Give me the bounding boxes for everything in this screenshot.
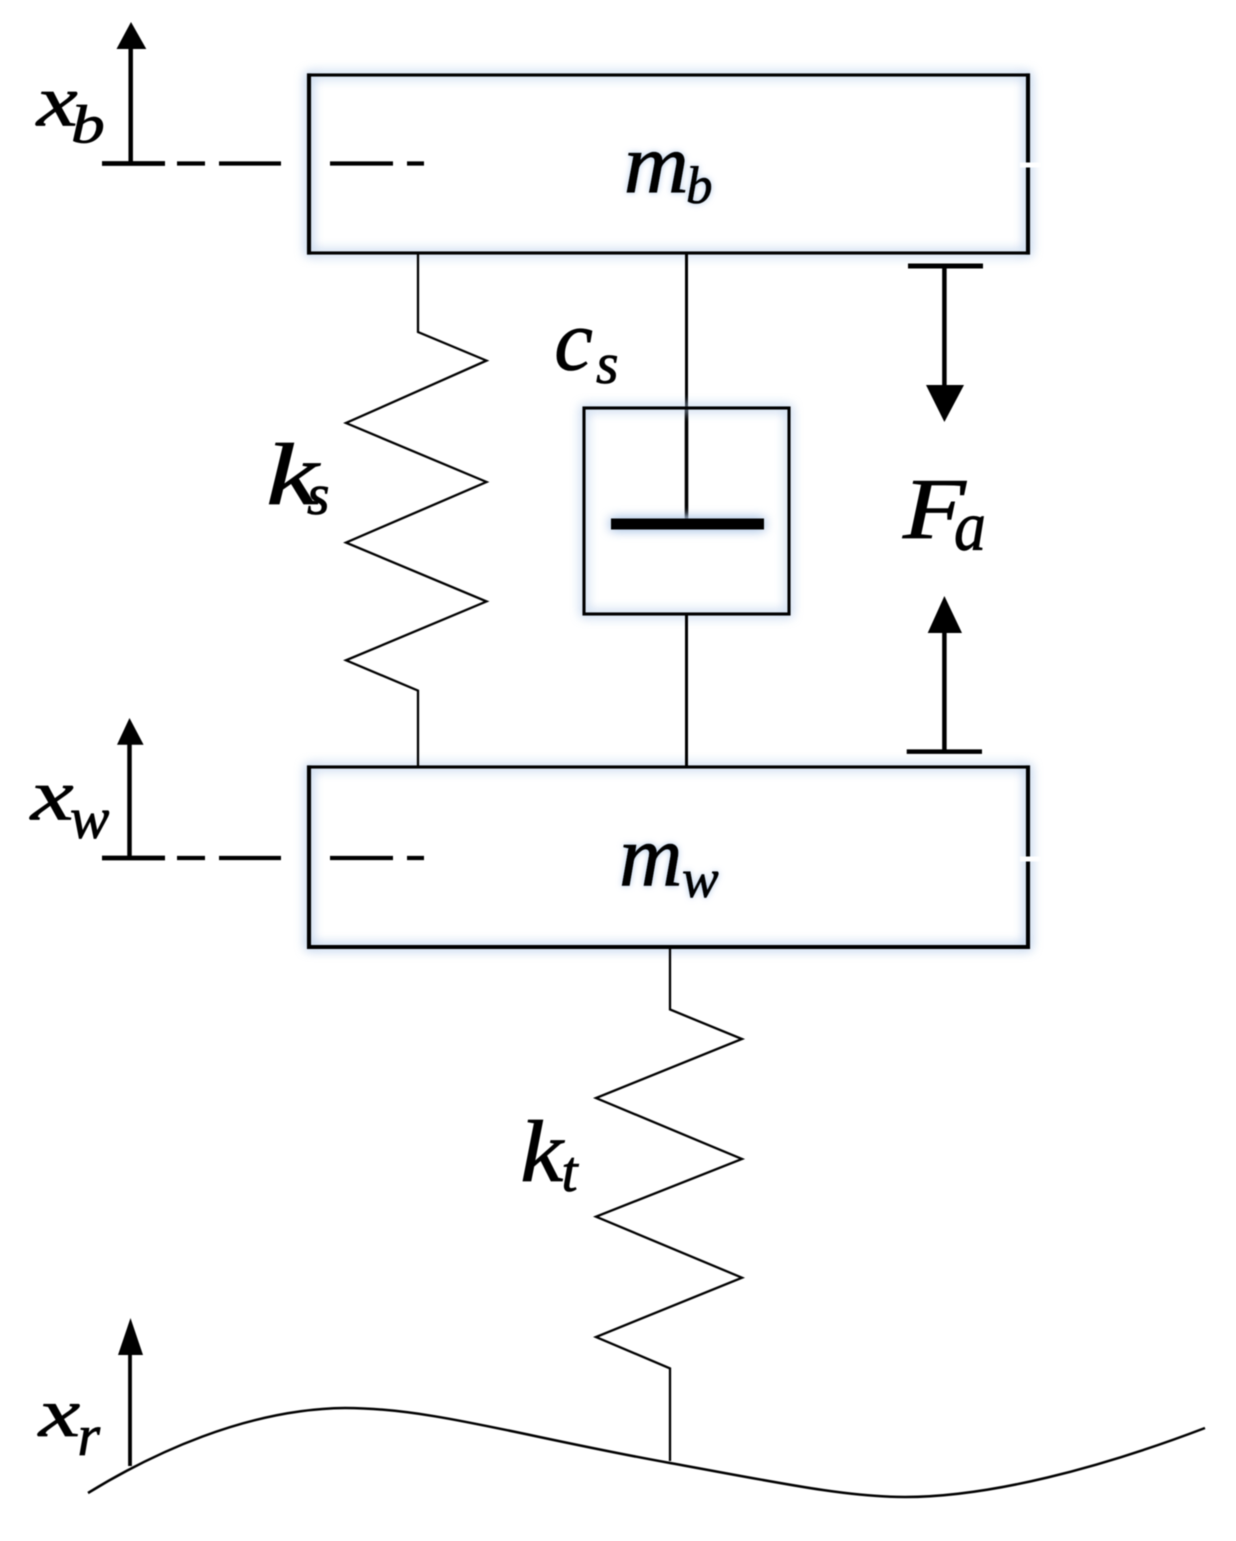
spring ks (suspension spring, zigzag) [346, 253, 487, 767]
svg-text:r: r [78, 1403, 101, 1468]
svg-text:b: b [686, 157, 713, 215]
reference xw : arrowhead [117, 718, 144, 745]
svg-text:s: s [307, 462, 330, 527]
svg-text:w: w [70, 785, 109, 851]
actuator force Fa : downward arrowhead [926, 385, 964, 422]
reference xb : arrowhead [117, 22, 147, 49]
actuator force Fa : upward arrow shaft [942, 631, 947, 752]
svg-text:x: x [29, 756, 74, 836]
svg-text:k: k [520, 1104, 565, 1201]
reference xw : dashed level line [177, 856, 424, 860]
reference xb : base bar [102, 161, 165, 166]
svg-text:m: m [619, 809, 683, 906]
spring kt (tyre spring, zigzag) [596, 947, 742, 1461]
svg-text:s: s [596, 331, 619, 396]
road profile curve [88, 1408, 1205, 1497]
actuator force Fa : lower T-bar [907, 749, 982, 754]
svg-text:w: w [682, 848, 719, 909]
svg-text:b: b [71, 96, 105, 155]
damper cs : piston bar [611, 519, 764, 530]
svg-text:x: x [38, 1374, 80, 1451]
actuator force Fa : upper T-bar [908, 264, 983, 269]
reference xw : base bar [102, 856, 165, 861]
reference xw : upward arrow [127, 742, 132, 858]
damper cs : piston rod inside cylinder [685, 408, 689, 524]
svg-text:a: a [954, 487, 986, 566]
reference xb : dashed level line [177, 161, 424, 165]
svg-text:m: m [624, 116, 689, 210]
mass block mw fill [309, 767, 1028, 947]
mass block mb (sprung body mass) [307, 73, 1030, 254]
reference xr : arrowhead [118, 1318, 143, 1355]
damper cs : upper rod [685, 253, 688, 410]
actuator force Fa : upward arrowhead [928, 596, 962, 633]
reference xr : upward arrow [128, 1352, 132, 1466]
mass block mb fill [309, 75, 1028, 253]
svg-text:t: t [562, 1139, 580, 1204]
small white gap artifact on mb right border [1020, 163, 1040, 168]
reference xb : upward arrow [128, 47, 133, 164]
label m_b [624, 116, 713, 215]
damper cs : cylinder box [584, 408, 789, 614]
svg-text:c: c [554, 291, 593, 388]
label m_w [619, 809, 719, 909]
small white gap artifact on mw right border [1020, 857, 1040, 862]
actuator force Fa : downward arrow shaft [942, 268, 947, 388]
damper cs : cylinder box fill [584, 408, 789, 614]
damper cs : lower rod [685, 614, 688, 767]
mass block mw (unsprung wheel mass) [307, 765, 1030, 949]
